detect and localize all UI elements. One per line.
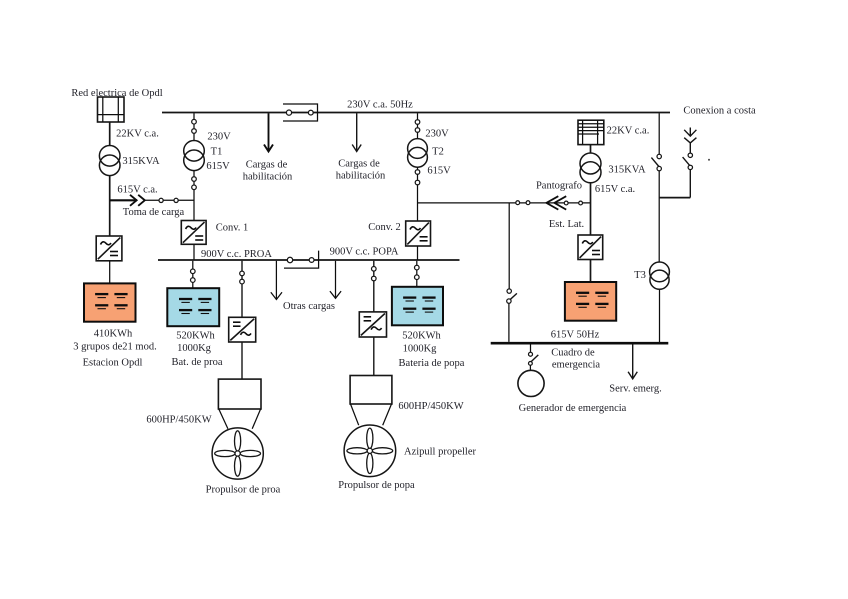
svg-text:Generador de emergencia: Generador de emergencia xyxy=(519,403,627,414)
svg-text:615V: 615V xyxy=(427,166,451,177)
wire switch to emergency bus xyxy=(508,303,510,342)
svg-text:22KV c.a.: 22KV c.a. xyxy=(607,126,650,137)
svg-text:3 grupos de21 mod.: 3 grupos de21 mod. xyxy=(73,342,156,353)
antenna / shore connection symbol xyxy=(684,128,696,154)
switch emergency feeder xyxy=(507,289,511,293)
svg-text:230V c.a. 50Hz: 230V c.a. 50Hz xyxy=(347,100,413,111)
svg-text:410KWh: 410KWh xyxy=(94,329,133,340)
svg-text:315KVA: 315KVA xyxy=(122,156,160,167)
wire shore branch from top bus xyxy=(658,113,660,154)
svg-text:900V c.c. POPA: 900V c.c. POPA xyxy=(330,247,399,258)
generator Generador de emergencia xyxy=(518,370,544,396)
isolator contacts above T2 xyxy=(415,120,420,125)
contacts propulsion popa xyxy=(372,267,377,272)
wire transformer to converter left xyxy=(109,176,111,236)
wire antenna branch down xyxy=(689,170,691,198)
svg-text:600HP/450KW: 600HP/450KW xyxy=(146,415,211,426)
arrow Toma de carga (feed arrow to T1 branch) xyxy=(110,195,194,206)
transformer 315KVA left (two coils) xyxy=(99,146,120,167)
svg-text:Estacion Opdl: Estacion Opdl xyxy=(83,358,143,369)
svg-text:600HP/450KW: 600HP/450KW xyxy=(398,401,463,412)
wire T1 to Conv.1 xyxy=(193,171,195,221)
transformer T3 xyxy=(650,262,670,282)
svg-text:Otras cargas: Otras cargas xyxy=(283,301,335,312)
wire antenna branch joining shore branch xyxy=(659,197,690,199)
wire converter to emergency battery xyxy=(590,260,592,283)
arrow Cargas de habilitacion 2 xyxy=(352,113,361,151)
svg-text:Cuadro de: Cuadro de xyxy=(551,348,595,359)
switch antenna branch xyxy=(688,153,692,157)
svg-text:615V 50Hz: 615V 50Hz xyxy=(551,330,600,341)
transformer T1 xyxy=(184,141,205,162)
wire battery popa drop xyxy=(416,261,418,287)
switch generator xyxy=(529,352,533,356)
svg-text:Propulsor de popa: Propulsor de popa xyxy=(338,480,415,491)
arrow Cargas de habilitacion 1 xyxy=(264,113,273,151)
wire T2 to Conv.2 xyxy=(417,167,419,221)
svg-text:habilitación: habilitación xyxy=(336,171,386,182)
wire propulsion popa drop xyxy=(373,261,375,312)
svg-text:615V: 615V xyxy=(206,161,230,172)
arrow Otras cargas A xyxy=(271,261,282,300)
converter (DC/AC inverter) proa xyxy=(229,317,256,342)
arrow Serv. emerg. xyxy=(628,345,637,379)
transformer T2 xyxy=(408,139,428,159)
svg-text:900V c.c. PROA: 900V c.c. PROA xyxy=(201,249,272,260)
converter Conv.2 (AC/DC) xyxy=(406,221,431,246)
svg-text:1000Kg: 1000Kg xyxy=(403,344,438,355)
svg-text:Conv. 2: Conv. 2 xyxy=(368,222,401,233)
bus-tie switch S1 on top bus (bracket with two contacts) xyxy=(283,104,318,121)
svg-text:Pantografo: Pantografo xyxy=(536,181,582,192)
wire grid to transformer 315KVA left xyxy=(109,122,111,146)
contacts battery proa xyxy=(191,269,196,274)
svg-text:22KV c.a.: 22KV c.a. xyxy=(116,129,159,140)
battery 520KWh Bat. de proa (blue) xyxy=(167,288,219,326)
svg-text:615V c.a.: 615V c.a. xyxy=(117,185,157,196)
chevrons pantograph (power flow arrows) xyxy=(546,196,558,209)
converter (DC/AC inverter) popa xyxy=(359,312,386,337)
svg-text:Red electrica de Opdl: Red electrica de Opdl xyxy=(71,88,162,99)
contacts pantograph right pair xyxy=(564,201,568,205)
svg-text:520KWh: 520KWh xyxy=(402,331,441,342)
converter Conv.1 (AC/DC) xyxy=(181,221,206,245)
svg-text:520KWh: 520KWh xyxy=(176,331,215,342)
svg-text:Bateria de popa: Bateria de popa xyxy=(399,358,465,369)
wire switch to T3 xyxy=(658,171,660,262)
svg-text:habilitación: habilitación xyxy=(243,172,293,183)
contacts pantograph left pair xyxy=(516,201,520,205)
svg-text:Conv. 1: Conv. 1 xyxy=(216,223,249,234)
svg-text:Conexion a costa: Conexion a costa xyxy=(683,106,756,117)
svg-text:615V c.a.: 615V c.a. xyxy=(595,184,635,195)
svg-text:1000Kg: 1000Kg xyxy=(177,343,212,354)
svg-text:emergencia: emergencia xyxy=(552,360,601,371)
wire T2 branch from top bus xyxy=(417,113,419,139)
svg-text:Cargas de: Cargas de xyxy=(246,160,288,171)
svg-text:Serv. emerg.: Serv. emerg. xyxy=(609,384,662,395)
transformer 315KVA right xyxy=(580,153,601,174)
converter (charger) left on shore station branch xyxy=(96,236,122,261)
wire T1 branch from top bus xyxy=(193,113,195,140)
svg-text:230V: 230V xyxy=(425,129,449,140)
contacts battery popa xyxy=(415,265,420,270)
wire Conv.1 to PROA bus xyxy=(193,244,195,260)
bus-tie switch S2 on DC bus xyxy=(284,251,319,269)
wire battery proa drop xyxy=(192,261,194,288)
wire pantograph link (T2 node to Est. Lat.) xyxy=(418,202,591,204)
arrow Otras cargas B xyxy=(330,261,341,299)
bus 900V c.c. PROA / POPA (DC bus) xyxy=(158,259,460,261)
svg-text:Propulsor de proa: Propulsor de proa xyxy=(206,485,281,496)
bus 615V 50Hz emergency xyxy=(491,342,669,345)
utility grid symbol (Red electrica de Opdl) xyxy=(98,97,125,122)
svg-text:T3: T3 xyxy=(634,270,646,281)
wire switch to generator xyxy=(529,365,531,370)
isolator contacts below T2 xyxy=(415,170,420,175)
wire transformer right to converter Est. Lat. xyxy=(590,183,592,235)
wire converter to motor popa xyxy=(373,337,375,376)
wire converter to motor proa xyxy=(241,342,243,379)
isolator contacts above T1 xyxy=(192,119,197,124)
battery emergencia (orange) xyxy=(565,282,616,321)
wire Conv.2 to POPA bus xyxy=(417,246,419,260)
svg-text:T2: T2 xyxy=(432,147,444,158)
bus 230V c.a. 50Hz (top AC bus) xyxy=(162,112,670,114)
svg-text:Est. Lat.: Est. Lat. xyxy=(549,219,584,230)
wire emergency feeder drop (from pantograph line) xyxy=(508,203,510,289)
wire T3 to emergency bus xyxy=(659,289,661,343)
svg-text:Bat. de proa: Bat. de proa xyxy=(171,357,222,368)
isolator contacts below T1 xyxy=(192,177,197,182)
contacts propulsion proa xyxy=(240,271,245,276)
svg-text:T1: T1 xyxy=(211,147,223,158)
wire converter to battery Estacion xyxy=(109,261,111,284)
wire generator drop xyxy=(530,345,532,353)
azimuth thruster popa (housing, strut, propeller) xyxy=(344,376,396,477)
battery 520KWh Bateria de popa (blue) xyxy=(392,287,443,326)
wire grid right to transformer xyxy=(590,145,592,153)
stray dot xyxy=(708,159,710,161)
svg-text:Azipull propeller: Azipull propeller xyxy=(404,447,477,458)
utility grid symbol right (shore 22KV) xyxy=(578,120,604,144)
battery 410KWh Estacion Opdl (orange) xyxy=(84,283,136,321)
svg-text:230V: 230V xyxy=(207,132,231,143)
svg-text:Cargas de: Cargas de xyxy=(338,159,380,170)
svg-text:315KVA: 315KVA xyxy=(608,165,646,176)
azimuth thruster proa (housing, strut, propeller) xyxy=(212,379,263,479)
svg-text:Toma de carga: Toma de carga xyxy=(123,207,185,218)
switch shore branch (open disconnector) xyxy=(657,154,661,158)
converter (charger) Est. Lat. xyxy=(578,235,603,260)
wire propulsion proa drop xyxy=(241,261,243,318)
